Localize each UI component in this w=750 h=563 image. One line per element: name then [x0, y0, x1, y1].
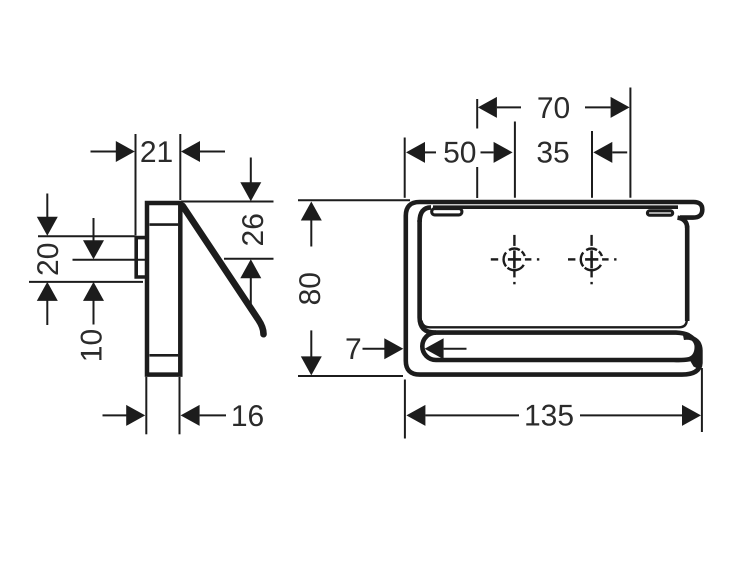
hole mark left: centerlines	[491, 235, 540, 284]
front view: hook tip solid junction	[690, 340, 701, 370]
front view: glass shelf front edge	[433, 205, 678, 209]
svg-text:70: 70	[537, 92, 570, 125]
dim 70: right arrow	[611, 97, 630, 118]
dim 10: upper stem	[93, 218, 95, 241]
dim 80: top reference line	[298, 199, 410, 201]
dim 26: down arrow	[240, 182, 261, 201]
side view: wall mounting bracket	[136, 238, 147, 277]
front view: glass clip right	[647, 211, 672, 215]
dim 20: upper stem	[46, 194, 48, 219]
dim 20: top reference line (bracket top)	[38, 235, 135, 237]
dim 16: left arrow	[126, 405, 145, 426]
front view: glass clip left	[432, 209, 462, 215]
dim 7: right arrow	[384, 338, 403, 359]
dim 20: down arrow	[37, 217, 58, 236]
svg-text:20: 20	[32, 243, 65, 276]
dim 26: lower stem	[250, 278, 252, 305]
dim 20/10: bottom reference line	[29, 281, 143, 283]
dim 10: down arrow	[83, 240, 104, 259]
svg-text:50: 50	[443, 137, 476, 170]
dim 26: upper stem	[250, 158, 252, 185]
svg-text:35: 35	[536, 137, 569, 170]
dim 21: extension line right (plate right face)	[179, 134, 181, 200]
dim 135: right arrow	[682, 405, 701, 426]
dim 135: right tail	[580, 414, 682, 416]
dim 16: left tail	[103, 414, 127, 416]
dim 16: right tail	[200, 414, 226, 416]
side view: roll arm (diagonal)	[183, 206, 264, 334]
svg-text:10: 10	[76, 329, 109, 362]
side view: plate inner chamfer line bottom	[150, 354, 179, 357]
front view: backplate bottom thin line	[422, 320, 687, 328]
dim 21: left arrow	[116, 141, 135, 162]
side view: wall plate body	[147, 203, 180, 375]
ext line C (hole 2 center)	[591, 131, 593, 198]
hole mark left: solid cross	[508, 250, 521, 268]
hole mark left: dashed circle arcs	[504, 249, 525, 271]
front view: inner left top curve to glass edge	[420, 207, 431, 222]
dim 80: bottom reference line	[298, 375, 403, 377]
dim 80: lower stem	[310, 330, 312, 357]
svg-text:135: 135	[524, 400, 574, 433]
dim 50: right arrow	[494, 142, 513, 163]
dim 16: extension line left	[145, 377, 147, 434]
dim 20: up arrow	[37, 282, 58, 301]
dim 16: right arrow	[181, 405, 200, 426]
dim 16: extension line right	[179, 377, 181, 434]
dim 35: right arrow (outside, pointing left)	[593, 142, 612, 163]
dim 135: extension line right	[701, 368, 703, 432]
dim 7: inner tail	[444, 348, 467, 350]
dim 7: left-pointing arrow at rail end	[425, 338, 444, 359]
dim 26: top reference line	[181, 201, 274, 203]
front view: roll rail bottom edge + right up-curl + left end cap	[422, 333, 696, 361]
front view: outer contour (top cover, left side, bottom, right curl)	[406, 202, 703, 375]
hole mark right: dashed circle arcs	[581, 249, 602, 271]
hole mark right: solid cross	[585, 250, 598, 268]
front view: inner left edge + roll rail top edge + hook inner cap	[420, 220, 689, 336]
hole mark right: centerlines	[568, 235, 617, 284]
dim 21: right tail	[200, 151, 225, 153]
svg-text:21: 21	[140, 136, 173, 169]
dim 21: extension line left (bracket face)	[135, 134, 137, 236]
dim 70: left tail	[497, 106, 521, 108]
dim 26: up arrow	[240, 259, 261, 278]
ext line D (70 left) upper segment	[476, 99, 478, 129]
dim 50: left tail	[425, 151, 436, 153]
dim 35: right tail	[612, 151, 627, 153]
dim 135: extension line left	[404, 380, 406, 439]
ext line A (left end of holder)	[404, 138, 406, 198]
dim 70: left arrow	[478, 97, 497, 118]
dim 80: down arrow	[301, 356, 322, 375]
dim 135: left tail	[425, 414, 519, 416]
dim 20: lower stem	[46, 300, 48, 325]
svg-text:16: 16	[231, 400, 264, 433]
dim 50: right tail	[481, 151, 494, 153]
dim 21: right arrow	[181, 141, 200, 162]
dim 50: left arrow	[406, 142, 425, 163]
dim 26: lower reference line (right of arm)	[224, 258, 274, 260]
dim 21: left tail	[91, 151, 118, 153]
dim 7: tail	[363, 348, 385, 350]
svg-text:7: 7	[345, 333, 362, 366]
dim 10: lower stem	[93, 300, 95, 324]
side view: plate inner chamfer line top	[150, 223, 179, 226]
dim 10: middle reference line (through bracket)	[73, 259, 147, 261]
dim 10: up arrow	[83, 282, 104, 301]
ext line D (70 left) lower segment	[476, 167, 478, 198]
dim 80: upper stem	[310, 220, 312, 247]
front view: backplate right edge	[685, 226, 690, 321]
dim 80: up arrow	[301, 202, 322, 221]
dim 135: left arrow	[406, 405, 425, 426]
ext line E (70 right)	[629, 88, 631, 198]
front view: fillet from cover lip to backplate right edge	[678, 218, 688, 228]
svg-text:80: 80	[294, 272, 327, 305]
svg-text:26: 26	[237, 213, 270, 246]
ext line B (hole 1 center)	[514, 122, 516, 198]
dim 70: right tail	[585, 106, 611, 108]
